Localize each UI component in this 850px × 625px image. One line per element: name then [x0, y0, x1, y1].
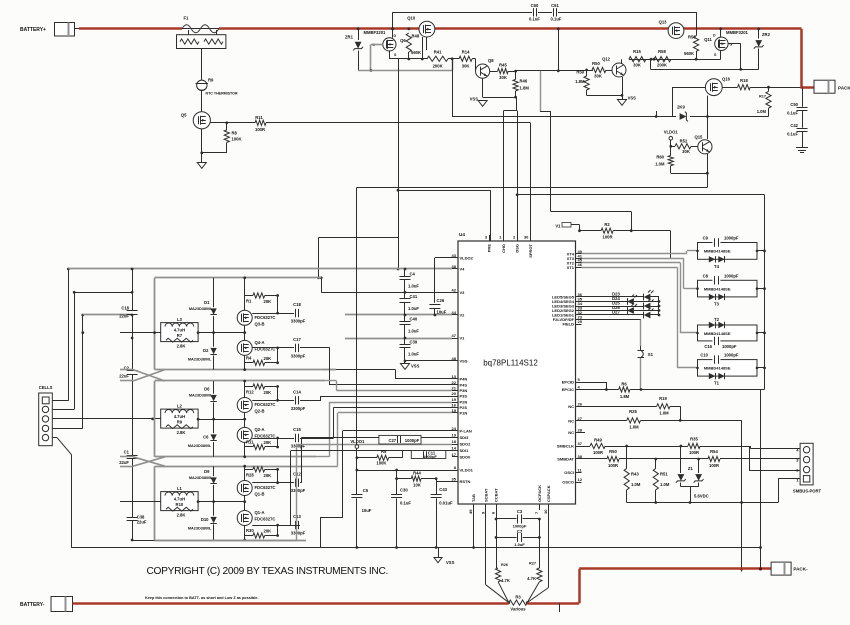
svg-text:T3: T3 — [714, 301, 720, 306]
svg-text:2.8K: 2.8K — [177, 430, 186, 435]
diode D26 — [582, 310, 628, 312]
svg-text:C17: C17 — [293, 337, 301, 342]
diode D25 — [582, 306, 644, 308]
capacitor C42 0.1uF — [802, 111, 804, 128]
svg-text:FDC6327C: FDC6327C — [255, 402, 276, 407]
wire TAB pin down — [473, 510, 475, 548]
svg-text:12: 12 — [578, 477, 583, 482]
svg-text:R35: R35 — [690, 437, 698, 442]
svg-text:C41: C41 — [410, 294, 418, 299]
wire C61 junction to red rail — [557, 27, 560, 30]
capacitor C14 3300pF — [278, 400, 295, 402]
wire cells pin4 to V2 — [52, 428, 83, 430]
svg-text:Q10: Q10 — [407, 16, 416, 21]
wire crossover X2 — [133, 457, 165, 466]
svg-text:NC: NC — [568, 430, 574, 435]
pin V3 42 — [452, 292, 458, 294]
pin P4N 13 — [452, 378, 458, 380]
pin VSS 48 — [452, 360, 458, 362]
pin XT4 40 — [576, 253, 582, 255]
svg-text:OCPACK: OCPACK — [537, 485, 542, 502]
svg-text:3300pF: 3300pF — [291, 531, 306, 536]
svg-text:R9: R9 — [208, 78, 214, 83]
svg-text:19: 19 — [452, 433, 457, 438]
svg-text:20K: 20K — [264, 529, 272, 534]
pin VLDO1 8 — [452, 470, 458, 472]
svg-text:C8: C8 — [703, 273, 709, 278]
wire Q8 emitter to VSS — [482, 78, 484, 97]
wire VLDO1 pin row — [357, 470, 452, 472]
capacitor C12 3300pF — [278, 482, 295, 484]
thermistor R9 — [197, 80, 207, 90]
svg-text:10K: 10K — [413, 483, 421, 488]
svg-text:C40: C40 — [410, 317, 418, 322]
switch S1 — [640, 346, 642, 351]
svg-text:22uF: 22uF — [119, 314, 129, 319]
svg-text:R45: R45 — [499, 63, 507, 68]
pin LED1/SEG1 32 — [576, 314, 582, 316]
capacitor C43 0.01uF — [436, 482, 438, 495]
wire right bus to PACK- net — [760, 390, 762, 569]
capacitor C27 1000pF box — [379, 435, 421, 444]
wire R19/R25 to rail — [680, 420, 741, 422]
wire right bus top — [517, 194, 764, 196]
wire drain rows block3 — [252, 482, 277, 484]
wire VSS bottom rail — [71, 547, 760, 549]
svg-text:20K: 20K — [264, 299, 272, 304]
capacitor C60 0.1uF — [533, 8, 535, 16]
wire Q8 node to CHG/R50 row — [516, 70, 593, 72]
wire RSTN row — [436, 479, 438, 482]
svg-text:4.7uH: 4.7uH — [174, 327, 185, 332]
svg-text:18: 18 — [452, 439, 457, 444]
svg-text:10uF: 10uF — [362, 508, 372, 513]
transistor Q8 — [472, 58, 475, 60]
pin DSG 2 — [517, 235, 519, 241]
svg-text:C18: C18 — [293, 302, 301, 307]
svg-text:MMBD4148SE: MMBD4148SE — [704, 286, 731, 291]
wire block3 rails — [154, 466, 156, 540]
svg-text:D6: D6 — [204, 387, 210, 392]
wire BATTERY- red — [73, 602, 509, 605]
svg-text:1.0M: 1.0M — [659, 411, 669, 416]
svg-text:MMBD4148SE: MMBD4148SE — [704, 366, 731, 371]
wire bundle C14 to P3S — [300, 400, 321, 402]
wire gate resistor rails block2 — [244, 381, 246, 387]
thermal breaker box under F1 — [177, 35, 226, 49]
inductor L2 / resistor R9 — [161, 409, 198, 428]
svg-text:TAB: TAB — [471, 494, 476, 502]
svg-text:BATTERY+: BATTERY+ — [20, 27, 46, 33]
pin SMBDAT 38 — [576, 458, 582, 460]
svg-text:VSS: VSS — [460, 359, 468, 364]
svg-text:U4: U4 — [459, 232, 465, 237]
svg-text:VLDO1: VLDO1 — [664, 129, 679, 134]
capacitor C13 3300pF — [278, 525, 295, 527]
svg-text:100K: 100K — [376, 461, 386, 466]
svg-text:560K: 560K — [684, 51, 694, 56]
svg-text:R54: R54 — [710, 449, 718, 454]
svg-text:L3: L3 — [177, 317, 183, 322]
pin SCBAT 9 — [485, 504, 487, 510]
svg-text:R43: R43 — [631, 472, 639, 477]
svg-text:R11: R11 — [255, 115, 263, 120]
svg-text:4.7K: 4.7K — [527, 576, 536, 581]
wire R6 row to right bus — [630, 389, 765, 391]
svg-text:P4N: P4N — [460, 377, 468, 382]
diode D27 — [582, 314, 644, 316]
svg-text:R6: R6 — [621, 381, 627, 386]
svg-text:3300pF: 3300pF — [291, 319, 306, 324]
wire drain rows block1 — [252, 313, 277, 315]
wire R11 to SPROT — [266, 122, 530, 124]
pin LED2/SEG2 33 — [576, 310, 582, 312]
svg-text:CCBAT: CCBAT — [494, 488, 499, 502]
svg-text:Keep this connection to BATT-: Keep this connection to BATT- as short a… — [145, 596, 258, 600]
svg-text:R46: R46 — [520, 79, 528, 84]
svg-text:R52: R52 — [680, 139, 688, 144]
wire BATTERY+ red rail — [79, 27, 182, 30]
svg-text:NC: NC — [568, 419, 574, 424]
pin LED3/SEG3 34 — [576, 306, 582, 308]
resistor R46 1.8M — [515, 71, 517, 79]
svg-text:Q6: Q6 — [400, 38, 406, 43]
wire Q6 gate — [371, 44, 383, 46]
wire bundle block2 bottom to P2N — [329, 402, 331, 457]
svg-text:1.0M: 1.0M — [631, 482, 641, 487]
wire Q15 emitter net — [707, 154, 709, 188]
wire Q12 emitter to VSS — [622, 77, 624, 99]
svg-text:47: 47 — [452, 333, 457, 338]
pin V2 44 — [452, 314, 458, 316]
svg-text:C16: C16 — [704, 344, 712, 349]
svg-text:SDI3: SDI3 — [460, 435, 470, 440]
resistor R6 1.8M — [582, 389, 619, 391]
svg-text:V1: V1 — [460, 336, 466, 341]
wire smbus bottom rail — [627, 502, 778, 504]
svg-text:SPROT: SPROT — [528, 243, 533, 257]
pin XT2 45 — [576, 262, 582, 264]
wire Q11 gate — [728, 43, 741, 45]
svg-text:MA23D3800L: MA23D3800L — [189, 307, 213, 311]
svg-text:1.8M: 1.8M — [620, 394, 630, 399]
svg-text:R26: R26 — [501, 563, 508, 567]
svg-text:R7: R7 — [177, 333, 183, 338]
diode D6 MA23D3800L — [213, 381, 215, 419]
inductor L3 / resistor R7 — [161, 323, 198, 342]
mosfet Q3-B FDC6327C — [237, 310, 252, 325]
pin EPCID 5 — [576, 382, 582, 384]
svg-text:22: 22 — [452, 380, 457, 385]
resistor R3 sense Various — [507, 601, 510, 604]
transformer T2 MMBD4148SE — [698, 325, 758, 341]
wire crossover X1 — [133, 370, 165, 381]
wire bundle C17 to P4S — [300, 347, 330, 349]
wire Q3-B Q4-A source column — [244, 278, 246, 311]
svg-text:100R: 100R — [689, 450, 699, 455]
wire block1 top to chain jog — [319, 237, 399, 239]
wire pin1 line — [778, 479, 780, 503]
wire CCBAT down — [496, 510, 498, 568]
wire gate resistor rails block3 — [244, 466, 246, 469]
svg-text:EPCID: EPCID — [562, 380, 574, 385]
svg-text:V3: V3 — [460, 290, 466, 295]
diode C6 MA23D3800L — [213, 419, 215, 457]
resistor R11 20K — [245, 446, 253, 448]
pin TAB 49 — [473, 504, 475, 510]
svg-text:C26: C26 — [437, 298, 445, 303]
svg-text:1000pF: 1000pF — [722, 344, 737, 349]
svg-text:C13: C13 — [293, 514, 301, 519]
resistor R12 20K — [245, 386, 253, 388]
svg-text:0.1uF: 0.1uF — [400, 501, 411, 506]
ground below Q5 — [201, 153, 203, 163]
svg-text:DSG: DSG — [515, 244, 520, 253]
pin RSTN 35 — [452, 481, 458, 483]
svg-text:1.0uF: 1.0uF — [408, 284, 419, 289]
wire Q16 gate — [672, 87, 705, 89]
svg-text:R49: R49 — [594, 438, 602, 443]
resistor R48 560K — [407, 27, 410, 30]
svg-text:R59: R59 — [576, 69, 584, 74]
svg-text:R51: R51 — [660, 472, 668, 477]
diode D2 MA23D3800L — [213, 333, 215, 370]
svg-text:CHG: CHG — [501, 244, 506, 253]
pin P-LAN 24 — [452, 430, 458, 432]
svg-text:22uF: 22uF — [119, 374, 129, 379]
svg-text:MA23D3800L: MA23D3800L — [189, 476, 213, 480]
wire T1 right pin — [757, 367, 765, 369]
pin XT1 46 — [576, 267, 582, 269]
mosfet Q1-A FDC6327C — [237, 511, 252, 526]
svg-text:R58: R58 — [658, 49, 666, 54]
svg-text:P2N: P2N — [460, 400, 468, 405]
capacitor C11 1000pF box — [411, 451, 446, 459]
svg-text:ZR2: ZR2 — [762, 32, 771, 37]
wire top gate rail with C60 C61 — [393, 12, 533, 14]
svg-text:C50: C50 — [790, 102, 798, 107]
svg-text:R60: R60 — [656, 155, 664, 160]
svg-text:38: 38 — [452, 264, 457, 269]
svg-text:20K: 20K — [264, 390, 272, 395]
resistor R5 100K — [357, 457, 377, 459]
wire R9 to Q5 — [201, 91, 203, 112]
pin PRE 3 — [489, 235, 491, 241]
mosfet Q2-A FDC6327C — [237, 427, 252, 442]
svg-text:1.0uF: 1.0uF — [514, 542, 525, 547]
wire cells pin5 to rail — [52, 437, 57, 439]
svg-text:Q5: Q5 — [181, 113, 187, 118]
resistor R45 30K — [490, 71, 498, 73]
svg-text:19: 19 — [452, 397, 457, 402]
pin P1N 15 — [452, 412, 458, 414]
svg-text:OSCO: OSCO — [562, 480, 574, 485]
svg-text:SDO2: SDO2 — [460, 442, 472, 447]
svg-text:1000pF: 1000pF — [423, 454, 437, 459]
svg-text:1.0M: 1.0M — [660, 482, 670, 487]
svg-text:D10: D10 — [201, 517, 209, 522]
svg-text:MMBD4148SE: MMBD4148SE — [704, 249, 731, 254]
svg-text:MMBF3201: MMBF3201 — [726, 30, 749, 35]
svg-text:NTC THERMISTOR: NTC THERMISTOR — [206, 92, 238, 96]
svg-text:MMBD4148SE: MMBD4148SE — [704, 331, 731, 336]
wire SMBCLK to port — [749, 446, 751, 471]
wire VLDO1 column — [356, 448, 358, 494]
wire Q2-B Q2-A source column — [244, 381, 246, 398]
svg-text:SMBDAT: SMBDAT — [557, 457, 574, 462]
svg-text:43: 43 — [452, 253, 457, 258]
resistor R44 10K — [396, 470, 398, 479]
svg-text:C4: C4 — [410, 272, 416, 277]
svg-text:C43: C43 — [439, 487, 447, 492]
svg-text:20K: 20K — [264, 356, 272, 361]
svg-text:0.1uF: 0.1uF — [787, 111, 798, 116]
wire lower row y69 — [650, 59, 652, 69]
svg-text:VLDO1: VLDO1 — [350, 439, 365, 444]
pin V1 47 — [452, 338, 458, 340]
wire CHG net — [503, 111, 505, 241]
svg-text:20K: 20K — [264, 440, 272, 445]
svg-text:P3S: P3S — [460, 394, 468, 399]
svg-text:VSS: VSS — [446, 560, 455, 565]
svg-text:22uF: 22uF — [119, 460, 129, 465]
wire bundle C13 to SDI1 — [291, 525, 300, 527]
svg-text:Q16: Q16 — [722, 77, 731, 82]
svg-text:D9: D9 — [204, 469, 210, 474]
wire L1 to diode column — [198, 501, 245, 503]
svg-text:R2: R2 — [604, 222, 610, 227]
svg-text:560K: 560K — [411, 50, 421, 55]
wire NC27 to R25 — [582, 420, 627, 422]
svg-text:30K: 30K — [594, 74, 602, 79]
resistor R43 1.0M — [626, 446, 628, 468]
svg-text:L2: L2 — [177, 403, 183, 408]
svg-text:15: 15 — [452, 408, 457, 413]
mosfet Q1-B FDC6327C — [237, 481, 252, 496]
svg-text:1.0M: 1.0M — [757, 109, 767, 114]
wire left col to rail A — [132, 540, 155, 542]
wire SPROT net — [530, 123, 532, 241]
pin CSPACK 10 — [548, 504, 550, 510]
svg-text:R30: R30 — [246, 528, 254, 533]
svg-text:1.8M: 1.8M — [520, 86, 530, 91]
svg-text:V1: V1 — [555, 224, 561, 229]
diode D1 MA23D3800L — [213, 278, 215, 333]
wire V3 row — [74, 292, 132, 294]
capacitor C17 3300pF — [278, 347, 295, 349]
svg-text:D1: D1 — [204, 300, 210, 305]
svg-text:R53: R53 — [688, 35, 696, 40]
pin V4 38 — [452, 268, 458, 270]
wire ZR1 node gray — [358, 70, 452, 72]
svg-text:SDO0: SDO0 — [460, 455, 472, 460]
svg-text:FDC6327C: FDC6327C — [255, 315, 276, 320]
svg-text:0.01uF: 0.01uF — [439, 501, 453, 506]
pin CCBAT 6 — [496, 504, 498, 510]
svg-text:100R: 100R — [602, 235, 612, 240]
capacitor C50 0.1uF — [802, 87, 804, 107]
connector PACK- — [771, 562, 791, 575]
svg-text:30K: 30K — [633, 63, 641, 68]
svg-text:1.0uF: 1.0uF — [408, 306, 419, 311]
svg-text:VLDO2: VLDO2 — [460, 256, 474, 261]
diode D10 MA23D3800L — [213, 502, 215, 540]
resistor R51 1.0M — [655, 459, 657, 468]
svg-text:S1: S1 — [648, 352, 654, 357]
svg-text:T2: T2 — [714, 317, 720, 322]
svg-text:R11: R11 — [246, 440, 254, 445]
svg-text:1.0uF: 1.0uF — [408, 352, 419, 357]
wire EPCID jog — [582, 382, 607, 384]
wire block2 rails — [154, 381, 156, 457]
svg-text:C10: C10 — [700, 353, 708, 358]
svg-text:10uF: 10uF — [437, 310, 447, 315]
svg-text:C18: C18 — [121, 306, 129, 311]
svg-text:22uF: 22uF — [137, 520, 147, 525]
svg-text:42: 42 — [452, 287, 457, 292]
wire VSS row — [405, 360, 452, 362]
svg-text:1000pF: 1000pF — [724, 236, 739, 241]
svg-text:MA23D3800L: MA23D3800L — [188, 527, 212, 531]
svg-text:5.6VDC: 5.6VDC — [694, 494, 709, 499]
svg-text:XT1: XT1 — [567, 265, 575, 270]
connector PACK+ — [814, 80, 835, 93]
wire bundle block3 top to P1N — [337, 413, 339, 466]
svg-text:R14: R14 — [462, 50, 470, 55]
wire XT1 to T1 — [582, 267, 678, 269]
diode D9 MA23D3800L — [213, 466, 215, 501]
svg-text:SMBCLK: SMBCLK — [557, 444, 574, 449]
wire bundle C15 to P2S — [300, 438, 334, 440]
svg-text:Q13: Q13 — [659, 19, 668, 24]
resistor R60 1.0M — [670, 146, 672, 155]
svg-text:R3: R3 — [515, 595, 521, 600]
capacitor C26 10uF — [434, 258, 436, 303]
svg-text:R1: R1 — [246, 299, 252, 304]
transformer T1 MMBD4148SE — [698, 360, 758, 377]
pin EPCIC 4 — [576, 389, 582, 391]
svg-text:R10: R10 — [176, 502, 184, 507]
wire T2 right pin — [757, 332, 765, 334]
ground VSS chain — [404, 361, 406, 364]
svg-text:Q4-A: Q4-A — [255, 340, 265, 345]
svg-text:1.0uF: 1.0uF — [408, 329, 419, 334]
svg-text:37: 37 — [578, 441, 583, 446]
pin SDO2 18 — [452, 444, 458, 446]
svg-text:NC: NC — [568, 404, 574, 409]
wire F2LVDF to S1 — [582, 319, 642, 321]
svg-text:C5: C5 — [363, 488, 369, 493]
svg-text:Q2-A: Q2-A — [255, 427, 265, 432]
pin SDI3 19 — [452, 437, 458, 439]
svg-text:R50: R50 — [609, 449, 617, 454]
svg-text:C30: C30 — [400, 488, 408, 493]
svg-text:2.8K: 2.8K — [177, 512, 186, 517]
svg-text:D2: D2 — [203, 348, 209, 353]
svg-text:1.0M: 1.0M — [655, 162, 665, 167]
pin LED5/SEG5 36 — [576, 296, 582, 298]
svg-text:R19: R19 — [659, 396, 667, 401]
pin NC 27 — [576, 420, 582, 422]
capacitor C30 0.1uF — [396, 479, 398, 494]
svg-text:C27: C27 — [388, 438, 396, 443]
svg-text:L1: L1 — [177, 486, 183, 491]
wire NC28 stub — [582, 432, 586, 434]
svg-text:R27: R27 — [529, 562, 536, 566]
mosfet Q4-A FDC6327C — [237, 340, 252, 355]
wire R2 row to XT3 — [670, 231, 672, 259]
wire bundle block2 top to P3N — [325, 380, 336, 382]
